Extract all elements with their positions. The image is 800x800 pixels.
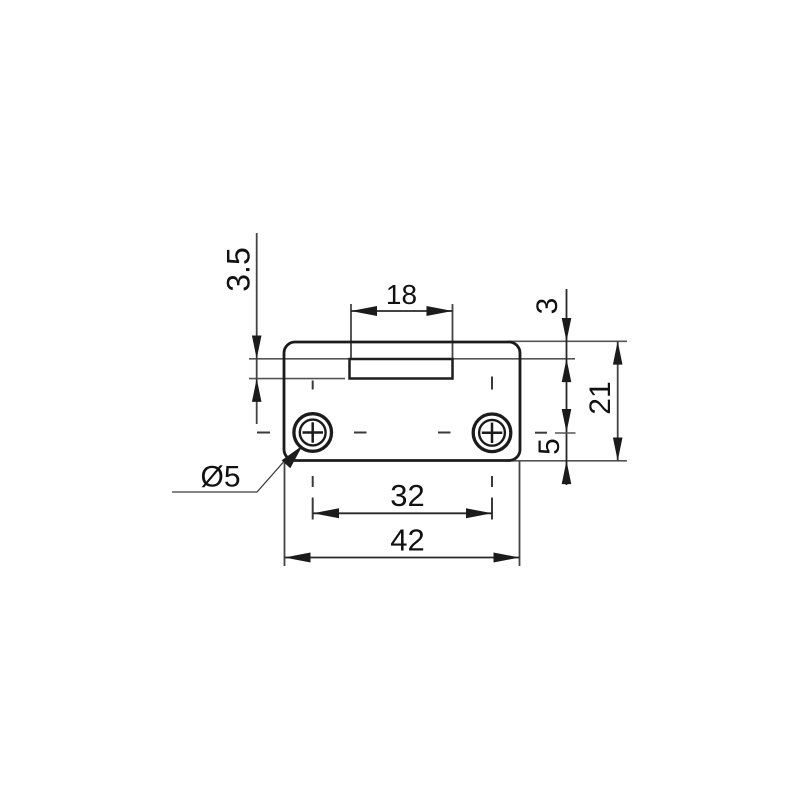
arrow 3 upper (down-pointing) (562, 318, 572, 341)
arrow 3.5 upper (down-pointing) (252, 336, 262, 359)
left hole outer circle (294, 414, 332, 452)
svg-text:42: 42 (390, 523, 424, 558)
left hole cross horizontal (303, 431, 324, 434)
right hole cross horizontal (482, 432, 503, 435)
svg-text:5: 5 (533, 438, 566, 455)
arrow 3 lower (up-pointing at slot top) (562, 359, 572, 382)
centerline horizontal through holes (chain dashes) (257, 432, 547, 434)
left hole inner circle (300, 420, 326, 446)
arrow 21 bottom (down-pointing) (613, 438, 623, 461)
extension line 18 right (452, 304, 454, 358)
centerline horizontal right end crossing 5-dim line (555, 432, 576, 434)
dimension line 32 (313, 512, 492, 514)
arrow 18 left (351, 306, 377, 316)
centerline vertical left hole (chain dashes) (312, 381, 314, 520)
dimension line 21 (617, 341, 619, 461)
leader arrowhead pointing at left hole rim (282, 446, 303, 469)
right hole inner circle (479, 420, 505, 446)
dimension line 42 (285, 557, 520, 559)
arrow 5 upper (down-pointing at hole centerline) (562, 409, 572, 432)
slot (18 x 3.5 window) (350, 359, 453, 379)
svg-text:3: 3 (531, 298, 564, 315)
dimension line 3.5 vertical (256, 233, 258, 424)
extension line: slot bottom level (for 3.5 dim) (249, 378, 345, 380)
arrow 3.5 lower (up-pointing) (252, 379, 262, 402)
svg-text:3.5: 3.5 (221, 247, 257, 291)
dimension line 3 and 5 vertical (566, 289, 568, 485)
arrow 32 right (466, 508, 492, 518)
dimension line 18 (351, 310, 453, 312)
extension line 18 left (350, 304, 352, 358)
leader line for hole diameter (172, 462, 284, 492)
extension line: slot top level (for 3.5 and 3 dims) (249, 358, 575, 360)
extension line 42 right (519, 461, 521, 566)
right hole cross vertical (491, 423, 494, 443)
centerline vertical right hole (chain dashes) (491, 377, 493, 520)
arrow 5 lower (up-pointing at body bottom) (562, 461, 572, 484)
extension line 42 left (284, 463, 286, 566)
right hole outer circle (473, 414, 511, 452)
left hole cross vertical (311, 422, 314, 442)
svg-text:Ø5: Ø5 (200, 461, 240, 494)
arrow 42 right (494, 553, 520, 563)
arrow 21 top (up-pointing) (613, 341, 623, 364)
svg-text:21: 21 (584, 381, 617, 414)
extension line: body bottom right (for 5 and 21 dims) (505, 460, 627, 462)
svg-text:18: 18 (386, 279, 417, 310)
arrow 18 right (427, 306, 453, 316)
arrow 42 left (285, 553, 311, 563)
arrow 32 left (313, 508, 339, 518)
body outline (rounded rectangle 42x21) (284, 342, 520, 461)
svg-text:32: 32 (390, 478, 424, 513)
extension line: body top right (for 3 and 21 dims) (508, 340, 627, 342)
